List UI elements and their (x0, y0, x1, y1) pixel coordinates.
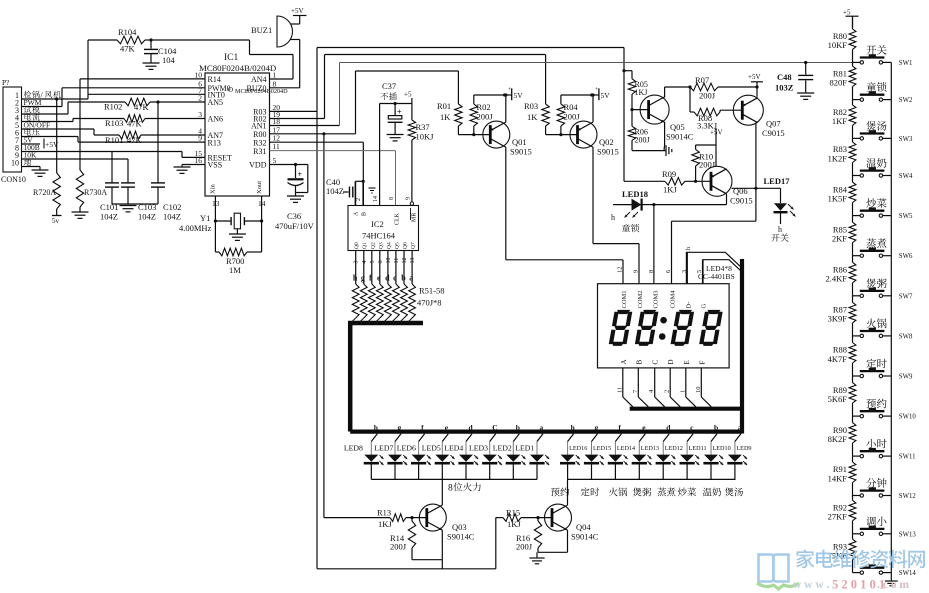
svg-text:2: 2 (356, 198, 362, 201)
IC1 left pin labels (195, 70, 233, 169)
svg-text:1M: 1M (229, 265, 241, 275)
svg-text:R720A: R720A (33, 188, 56, 197)
svg-text:SW4: SW4 (899, 173, 913, 180)
svg-text:SW11: SW11 (899, 454, 916, 461)
LED LED5 (422, 434, 455, 480)
svg-text:B: B (635, 360, 643, 365)
svg-text:C36: C36 (287, 211, 301, 221)
svg-text:470J*8: 470J*8 (417, 298, 442, 308)
wire Q04 emitter bottom (538, 530, 568, 552)
svg-text:SW13: SW13 (899, 531, 917, 538)
svg-text:+: + (298, 170, 303, 179)
wire CON10 pin6 电压 (22, 136, 79, 138)
svg-text:D-: D- (685, 302, 692, 309)
IC1 pin 14 Xout label (256, 181, 266, 208)
resistor R80 10KF (828, 16, 856, 62)
svg-text:LED7: LED7 (374, 444, 393, 453)
svg-text:+5: +5 (843, 9, 851, 17)
wire R03 pin20 net (270, 48, 625, 569)
LED17 开关 (764, 176, 796, 242)
svg-text:47K: 47K (134, 102, 150, 112)
svg-text:1K: 1K (527, 112, 538, 122)
ground switch bus (885, 581, 898, 586)
svg-text:Q6: Q6 (403, 242, 409, 249)
switch SW14 (853, 564, 917, 577)
svg-text:LED11: LED11 (689, 445, 707, 452)
resistor R10 200J (692, 145, 716, 183)
svg-text:1K: 1K (440, 112, 451, 122)
svg-text:R37: R37 (416, 122, 430, 132)
svg-text:3: 3 (354, 261, 360, 264)
svg-text:S9014C: S9014C (666, 132, 694, 142)
svg-text:AN4: AN4 (251, 75, 267, 84)
svg-text:Q04: Q04 (576, 522, 591, 532)
wire R14 pin10 (80, 78, 205, 80)
svg-text:104Z: 104Z (163, 212, 181, 222)
svg-text:200J: 200J (699, 160, 716, 170)
transistor Q03 S9014C (419, 504, 474, 541)
svg-text:B: B (362, 212, 368, 216)
switch SW5 炒菜 (853, 198, 913, 220)
wire COM4 feed (672, 188, 756, 283)
svg-text:104: 104 (162, 55, 176, 65)
svg-text:9: 9 (198, 134, 202, 143)
svg-text:1: 1 (273, 71, 277, 80)
wire AN4 pin1 (151, 40, 293, 79)
wire Q02 collector to COM2 (593, 147, 639, 284)
svg-text:LED9: LED9 (736, 445, 751, 452)
svg-text:10: 10 (195, 70, 203, 79)
svg-text:Q01: Q01 (512, 137, 527, 147)
svg-text:LED15: LED15 (593, 445, 611, 452)
svg-text:G: G (701, 304, 708, 309)
ground Y1 (229, 234, 246, 240)
svg-text:104Z: 104Z (326, 186, 344, 196)
svg-text:Q02: Q02 (599, 137, 614, 147)
svg-text:Q1: Q1 (362, 242, 368, 249)
display bottom seg labels (620, 359, 707, 364)
power +5V Q02 (592, 87, 610, 100)
svg-text:5K6F: 5K6F (828, 394, 848, 404)
wire Q01 collector to COM1 (506, 147, 623, 284)
svg-text:11: 11 (394, 258, 400, 264)
bus left vertical (348, 323, 353, 432)
resistor R15 1KJ (496, 508, 552, 530)
svg-text:C: C (492, 423, 497, 432)
capacitor C102 (151, 100, 181, 221)
LED row2 function labels (551, 487, 743, 496)
svg-text:R03: R03 (524, 101, 538, 111)
svg-text:+5V: +5V (291, 7, 304, 15)
svg-text:8: 8 (273, 79, 277, 88)
svg-text:MC80F0204B/0204D: MC80F0204B/0204D (199, 63, 276, 73)
svg-text:LED16: LED16 (569, 445, 587, 452)
svg-text:5: 5 (273, 156, 277, 165)
svg-text:SW10: SW10 (899, 414, 917, 421)
svg-text:2: 2 (664, 390, 671, 393)
wire Q02 base (546, 134, 578, 136)
wire INT0 pin7 (88, 93, 205, 95)
IC U2 74HC164 body (348, 196, 419, 251)
svg-text:SW14: SW14 (899, 570, 917, 577)
svg-text:SW9: SW9 (899, 374, 913, 381)
display label box (686, 252, 741, 283)
svg-text:R04: R04 (564, 102, 579, 112)
svg-text:200J: 200J (699, 91, 716, 101)
bus segment bar (348, 321, 423, 326)
switch SW2 童锁 (853, 82, 913, 104)
svg-text:74HC164: 74HC164 (362, 231, 396, 241)
switch SW6 蒸煮 (853, 238, 913, 260)
wire C37 node (380, 102, 412, 206)
resistor R08 3.3KJ (690, 87, 742, 131)
svg-text:g: g (595, 423, 599, 432)
svg-text:8: 8 (389, 197, 395, 200)
svg-text:C102: C102 (163, 202, 181, 212)
svg-text:R14: R14 (208, 75, 221, 84)
svg-text:12: 12 (402, 258, 408, 264)
svg-text:Q0: Q0 (354, 242, 360, 249)
resistor R92 27KF (828, 496, 856, 534)
ground Q04 (529, 552, 544, 564)
svg-text:R13: R13 (377, 508, 391, 518)
svg-text:LED6: LED6 (397, 444, 416, 453)
LED LED11 (680, 434, 707, 480)
svg-text:P?: P? (2, 78, 10, 87)
svg-text:R51-58: R51-58 (419, 286, 445, 296)
svg-text:5v: 5v (52, 217, 60, 225)
svg-text:3K9F: 3K9F (828, 314, 848, 324)
LED LED7 (374, 434, 407, 480)
svg-text:E: E (683, 360, 691, 364)
wire Q03 bottom (412, 530, 442, 569)
resistor R84 1K5F (828, 176, 856, 216)
svg-text:R09: R09 (662, 169, 676, 179)
svg-text:R15: R15 (506, 508, 520, 518)
wire R13 pin9 (78, 137, 205, 143)
LED row2 segment letters (571, 423, 742, 432)
wire VSS pin16 (182, 165, 205, 168)
svg-text:10: 10 (11, 158, 19, 167)
svg-text:6: 6 (378, 261, 384, 264)
wire IC2 A B pins (355, 180, 364, 206)
svg-text:S9014C: S9014C (571, 532, 599, 542)
LED LED1 (515, 434, 549, 480)
label 8位火力 (448, 483, 481, 494)
svg-text:12: 12 (617, 267, 624, 274)
svg-text:h: h (778, 225, 782, 234)
svg-text:COM2: COM2 (637, 290, 644, 308)
svg-text:LED13: LED13 (641, 445, 659, 452)
resistor R87 3K9F (828, 296, 856, 336)
LED LED16 (560, 434, 587, 480)
transistor Q06 C9015 (702, 166, 753, 205)
svg-text:SW2: SW2 (899, 97, 913, 104)
svg-text:2KF: 2KF (832, 234, 847, 244)
svg-text:A: A (620, 359, 628, 364)
svg-text:1KJ: 1KJ (378, 519, 392, 529)
IC1 pin 13 Xin label (210, 184, 220, 209)
svg-text:R104: R104 (118, 27, 137, 37)
LED LED14 (608, 434, 635, 480)
svg-text:R101: R101 (105, 135, 123, 145)
svg-text:SW6: SW6 (899, 253, 913, 260)
svg-text:10KJ: 10KJ (416, 132, 435, 142)
LED row1 segment letters (374, 423, 544, 432)
resistor R104 (88, 27, 151, 99)
svg-text:10: 10 (695, 387, 702, 394)
capacitor C48 103Z (775, 61, 813, 93)
svg-text:b: b (401, 274, 406, 283)
wire R32 pin12 net (270, 142, 364, 181)
wire Q05 collector (665, 85, 692, 97)
wire AN1 pin18 key ladder (270, 63, 860, 126)
IC2 output pins Q0-Q7 (353, 242, 417, 284)
wire Q02 emitter (591, 93, 594, 122)
resistor R101 (94, 129, 205, 145)
svg-text:11: 11 (616, 387, 623, 393)
ground R730A (72, 212, 89, 218)
svg-text:CC-4401BS: CC-4401BS (698, 272, 735, 281)
LED LED12 (656, 434, 683, 480)
svg-text:R103: R103 (105, 118, 123, 128)
wire PWM0 pin6 (62, 88, 205, 107)
svg-text:LED18: LED18 (622, 189, 648, 199)
svg-text:9: 9 (406, 197, 412, 200)
wire CON10 pin1 检锅/风机 (22, 97, 89, 100)
svg-text:h: h (353, 274, 358, 283)
svg-text:+5: +5 (404, 91, 412, 99)
crystal Y1 4.00MHz (179, 213, 262, 234)
connector CON10 (1, 78, 26, 184)
switch SW7 煲粥 (853, 278, 913, 300)
svg-text:MR: MR (412, 213, 418, 222)
svg-text:Q05: Q05 (670, 122, 685, 132)
svg-text:47K: 47K (127, 119, 143, 129)
svg-text:Q3: Q3 (378, 242, 384, 249)
resistor R88 4K7F (828, 336, 856, 376)
LED LED4 (444, 434, 478, 480)
svg-text:C37: C37 (382, 81, 396, 91)
svg-text:Q06: Q06 (733, 186, 748, 196)
wire CON10 pin10 地 (22, 167, 41, 171)
svg-text:BUZ1: BUZ1 (251, 25, 272, 35)
capacitor C40 (326, 177, 353, 198)
switch SW9 定时 (853, 359, 913, 381)
wire R02 pin19 net (270, 55, 546, 119)
svg-text:C9015: C9015 (762, 128, 785, 138)
svg-text:8: 8 (448, 484, 453, 494)
resistor R91 14KF (828, 456, 856, 495)
svg-text:S9014C: S9014C (447, 532, 475, 542)
svg-text:c: c (393, 274, 397, 283)
svg-text:C9015: C9015 (730, 196, 753, 206)
svg-text:R01: R01 (437, 101, 451, 111)
wire BUZ0 pin8 (270, 40, 300, 88)
wire display D- pin (686, 247, 692, 284)
svg-text:1KJ: 1KJ (507, 519, 521, 529)
power +5V Q01 (505, 87, 524, 100)
svg-text:1KJ: 1KJ (663, 185, 677, 195)
LED LED13 (632, 434, 659, 480)
resistor R730A (76, 79, 107, 212)
svg-text:8: 8 (648, 270, 655, 273)
wire CON10 pin8 100B (22, 151, 113, 153)
svg-text:200J: 200J (564, 112, 581, 122)
svg-text:C48: C48 (777, 72, 792, 82)
wire LED row2 cathode bracket (568, 478, 736, 480)
resistor R09 1KJ (624, 169, 711, 195)
resistor R06 200J (628, 108, 666, 151)
svg-text:b: b (516, 423, 520, 432)
ground C48 (797, 93, 814, 99)
svg-text:Q7: Q7 (411, 242, 417, 249)
svg-text:b: b (714, 423, 718, 432)
switch SW4 温奶 (853, 158, 913, 180)
svg-text:104Z: 104Z (138, 212, 156, 222)
svg-text:VDD: VDD (249, 161, 267, 170)
power +5V Q07 (748, 73, 763, 97)
IC1 right pin labels (247, 71, 281, 170)
wire Q05 base (632, 109, 649, 111)
wire CON10 pin2 PWM (22, 106, 63, 108)
svg-text:Q5: Q5 (394, 242, 400, 249)
ground VSS (174, 167, 191, 173)
svg-text:200J: 200J (635, 136, 650, 145)
wire Q06 LED17 feed (732, 187, 781, 190)
svg-text:14: 14 (373, 196, 379, 202)
svg-text:R730A: R730A (84, 188, 107, 197)
svg-text:13: 13 (410, 258, 416, 264)
switch SW11 小时 (853, 439, 916, 461)
svg-text:470uF/10V: 470uF/10V (275, 221, 315, 231)
resistor R720A (33, 99, 62, 225)
svg-text:2.4KF: 2.4KF (826, 274, 848, 284)
resistor R14 200J (390, 516, 416, 560)
capacitor C104 (144, 38, 177, 65)
svg-text:S9015: S9015 (510, 147, 532, 157)
LED LED15 (584, 434, 611, 480)
power +5 switch ladder (843, 9, 859, 29)
wire long bottom (317, 518, 496, 569)
svg-text:h: h (611, 213, 615, 222)
resistor R89 5K6F (828, 376, 856, 416)
ground IC2 small (369, 188, 376, 193)
resistor R90 8K2F (828, 416, 856, 456)
svg-text:14KF: 14KF (828, 473, 848, 483)
wire CON10 pin3 试模 (22, 113, 69, 115)
svg-text:R07: R07 (695, 75, 709, 85)
svg-text:a: a (738, 423, 742, 432)
transistor Q02 S9015 (570, 121, 619, 156)
CON10 pin labels (24, 91, 61, 166)
svg-text:Xin: Xin (210, 184, 217, 195)
ground C36 (287, 196, 304, 202)
wire CON10 pin5 ON/OFF (22, 128, 95, 130)
svg-text:w w w .: w w w . (793, 579, 830, 591)
resistor R07 200J (690, 75, 759, 101)
svg-text:AN6: AN6 (208, 115, 224, 124)
wire R00 pin17 net (270, 71, 459, 518)
svg-text:47K: 47K (127, 135, 143, 145)
svg-text:47K: 47K (120, 44, 136, 54)
switch SW8 火锅 (853, 318, 913, 340)
svg-text:8K2F: 8K2F (828, 434, 848, 444)
wire CON10 pin9 10K (22, 158, 129, 160)
resistor R102 (68, 98, 205, 114)
ground CON10 pin10 (32, 170, 49, 176)
svg-text:1K5F: 1K5F (828, 193, 848, 203)
display top pin labels (617, 267, 708, 309)
ground C104 (143, 63, 160, 69)
resistor R82 1KF (832, 100, 856, 139)
svg-text:103Z: 103Z (775, 83, 794, 93)
svg-text:CLK: CLK (395, 212, 401, 225)
power +5V BUZ1 (291, 7, 307, 24)
transistor Q07 C9015 (733, 95, 784, 138)
wire Q01 base (458, 134, 490, 136)
svg-text:A: A (354, 211, 360, 216)
svg-text:IC2: IC2 (371, 219, 384, 229)
svg-text:LED14: LED14 (617, 445, 635, 452)
svg-text:BUZ0: BUZ0 (247, 84, 267, 93)
wire RESET pin15 (112, 152, 205, 158)
LED LED6 (397, 434, 431, 480)
svg-text:Q2: Q2 (370, 242, 376, 249)
capacitor C101 (100, 152, 119, 222)
svg-text:Q4: Q4 (386, 242, 392, 249)
svg-text:4.00MHz: 4.00MHz (179, 223, 212, 233)
wire R37 to MR (410, 202, 413, 206)
resistor R85 2KF (832, 216, 856, 256)
svg-text:COM3: COM3 (653, 290, 660, 308)
capacitor C36 (275, 165, 315, 232)
svg-text:SW8: SW8 (899, 333, 913, 340)
svg-text:. c o m: . c o m (877, 579, 909, 591)
wire Q05 emitter down (663, 122, 666, 151)
bus right vertical (740, 259, 744, 434)
svg-text:CON10: CON10 (1, 175, 26, 184)
IC U1 MC80F0204B/0204D body (199, 53, 288, 196)
resistor R03 1K (524, 101, 549, 135)
svg-text:LED3: LED3 (469, 444, 488, 453)
svg-text:820F: 820F (830, 77, 848, 87)
ground Q05 emitter (666, 145, 672, 156)
switch SW3 煲汤 (853, 121, 913, 143)
svg-text:C: C (652, 360, 660, 365)
svg-text:SW3: SW3 (899, 136, 913, 143)
display bottom pin wires (616, 368, 711, 407)
resistor R81 820F (830, 62, 856, 99)
switch SW1 开关 (853, 45, 913, 67)
svg-text:SW5: SW5 (899, 213, 913, 220)
resistor R04 200J (557, 93, 593, 136)
wire Q03 base feed (324, 517, 390, 519)
svg-text:1KF: 1KF (832, 116, 847, 126)
switch SW12 分钟 (853, 478, 917, 500)
watermark site name (796, 549, 925, 568)
svg-text:COM1: COM1 (621, 290, 628, 308)
svg-text:a: a (540, 423, 544, 432)
svg-text:LED17: LED17 (764, 176, 791, 186)
svg-text:200J: 200J (477, 112, 494, 122)
svg-text:5V: 5V (514, 91, 524, 100)
wire R31 pin11 net (270, 151, 396, 206)
transistor Q05 S9014C (640, 95, 694, 141)
svg-text:LED8: LED8 (344, 444, 363, 453)
svg-text:R13: R13 (208, 138, 221, 147)
LED LED8 (344, 434, 384, 480)
